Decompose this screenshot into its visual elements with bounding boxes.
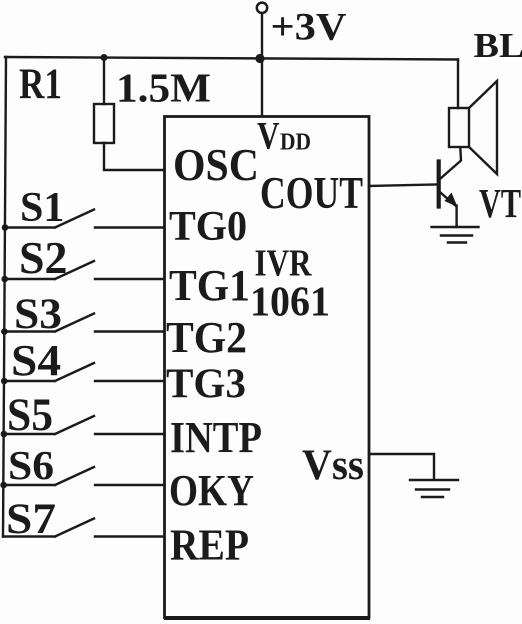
svg-text:S6: S6 <box>8 442 54 488</box>
transistor VT emitter <box>441 193 456 206</box>
svg-text:R1: R1 <box>19 60 62 108</box>
switch S6 <box>4 467 164 485</box>
switch S4 <box>4 363 164 381</box>
IC IVR1061 box <box>165 117 370 618</box>
wire Vss to ground <box>369 454 434 479</box>
switch S5 <box>4 416 164 434</box>
node junction VDD rail <box>255 54 264 63</box>
svg-text:S4: S4 <box>11 335 61 385</box>
svg-text:VT: VT <box>479 180 521 226</box>
svg-text:S2: S2 <box>19 232 68 283</box>
wire VDD from terminal to IC <box>261 13 263 116</box>
transistor VT emitter arrow <box>445 193 458 208</box>
svg-text:INTP: INTP <box>170 412 262 462</box>
switch S7 <box>3 519 164 537</box>
IC box bottom edge emphasis <box>166 616 368 620</box>
svg-text:S1: S1 <box>20 185 65 231</box>
switch S2 <box>5 261 164 279</box>
wire R1 bottom lead to OSC <box>104 143 164 170</box>
svg-text:TG1: TG1 <box>169 260 250 310</box>
ground VT symbol <box>432 227 479 243</box>
switch S3 <box>4 314 164 332</box>
resistor R1 body <box>94 104 114 143</box>
wire R1 top lead <box>103 58 105 104</box>
svg-text:TG0: TG0 <box>169 203 247 250</box>
node junction S4 <box>1 378 8 385</box>
svg-text:REP: REP <box>170 520 249 570</box>
svg-text:OSC: OSC <box>173 139 259 190</box>
svg-text:1061: 1061 <box>250 279 330 326</box>
svg-text:Vss: Vss <box>302 442 364 489</box>
svg-text:V: V <box>257 115 280 158</box>
transistor VT collector <box>441 148 461 179</box>
svg-text:OKY: OKY <box>169 465 254 515</box>
svg-text:DD: DD <box>280 130 311 156</box>
svg-text:S3: S3 <box>14 290 62 338</box>
wire speaker feed down <box>457 60 459 109</box>
wire COUT to transistor base <box>369 185 437 187</box>
node junction S3 <box>1 328 8 335</box>
+3V terminal circle <box>257 3 267 13</box>
svg-text:BL: BL <box>474 26 522 65</box>
svg-text:1.5M: 1.5M <box>116 65 211 111</box>
svg-text:+3V: +3V <box>271 6 347 49</box>
switch S1 <box>5 210 164 228</box>
node junction S1 <box>2 224 9 231</box>
svg-text:S5: S5 <box>7 390 53 441</box>
wire left bus vertical <box>3 57 6 537</box>
svg-text:TG2: TG2 <box>166 312 247 362</box>
speaker BL horn <box>469 81 497 174</box>
node junction S2 <box>1 276 8 283</box>
speaker BL driver <box>449 108 469 147</box>
svg-text:S7: S7 <box>6 495 56 543</box>
svg-text:COUT: COUT <box>260 167 363 218</box>
node junction S5 <box>1 431 8 438</box>
ground Vss symbol <box>410 480 458 497</box>
node junction R1 top <box>101 54 108 61</box>
transistor VT base bar <box>437 162 441 207</box>
svg-text:TG3: TG3 <box>166 361 246 408</box>
wire top rail <box>5 57 458 60</box>
node junction S6 <box>0 482 7 489</box>
wire emitter to ground <box>455 206 457 228</box>
